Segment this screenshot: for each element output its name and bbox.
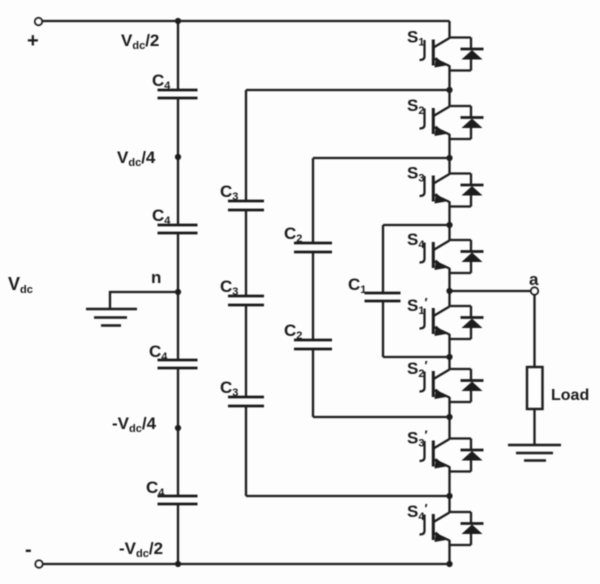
svg-text:a: a — [529, 270, 539, 289]
wire neutral to ground — [110, 292, 178, 308]
node bottom rail junction — [175, 561, 181, 567]
wire collector stem — [448, 225, 450, 240]
svg-text:S2: S2 — [407, 96, 424, 117]
wire C2 ladder bus — [312, 158, 314, 417]
wire emitter stem — [448, 66, 450, 91]
wire emitter stem — [448, 268, 450, 291]
svg-text:+: + — [27, 30, 39, 52]
wire top split — [450, 105, 472, 107]
plate top — [228, 295, 264, 298]
IGBT body — [420, 174, 450, 204]
svg-text:Vdc/4: Vdc/4 — [117, 148, 156, 169]
svg-text:n: n — [151, 268, 161, 287]
plate bottom — [158, 503, 198, 506]
node switch bus y=357 — [446, 354, 452, 360]
transistor S2' (IGBT with antiparallel diode) — [407, 357, 484, 417]
plate top — [228, 200, 264, 203]
capacitor C3 — [220, 277, 264, 305]
capacitor C3 — [220, 378, 264, 406]
diode antiparallel — [450, 369, 484, 402]
transistor S1' (IGBT with antiparallel diode) — [407, 291, 484, 357]
wire output to a — [450, 290, 532, 292]
capacitor C4 — [149, 342, 198, 368]
node top rail junction — [175, 18, 181, 24]
plate top — [294, 339, 332, 342]
transistor S2 (IGBT with antiparallel diode) — [407, 90, 484, 158]
capacitor C2 — [284, 224, 332, 252]
diode antiparallel — [450, 174, 484, 207]
capacitor C4 — [146, 478, 198, 504]
wire top split — [450, 239, 472, 241]
node n neutral point — [175, 289, 181, 295]
plate bottom — [228, 209, 264, 212]
capacitor C4 — [152, 71, 198, 98]
wire collector stem — [448, 21, 450, 38]
node switch bus y=225 — [446, 222, 452, 228]
plate top — [158, 89, 198, 92]
node switch bus y=90 — [446, 87, 452, 93]
wire top DC rail — [42, 20, 450, 22]
svg-text:S3: S3 — [407, 164, 424, 185]
plate bottom — [365, 300, 401, 303]
IGBT body — [420, 439, 450, 469]
wire top split — [450, 36, 472, 38]
wire C1 top tap — [383, 224, 450, 226]
diode antiparallel — [450, 106, 484, 139]
svg-text:-Vdc/4: -Vdc/4 — [112, 414, 157, 435]
diode antiparallel — [450, 439, 484, 472]
wire emitter stem — [448, 202, 450, 226]
plate top — [365, 292, 401, 295]
terminal + positive DC input — [35, 18, 42, 25]
plate top — [158, 359, 198, 362]
svg-text:Vdc: Vdc — [8, 274, 33, 296]
wire collector stem — [448, 158, 450, 174]
svg-text:-: - — [25, 539, 32, 561]
wire C3 ladder top tap — [246, 89, 450, 91]
diode antiparallel — [450, 38, 484, 71]
svg-text:C1: C1 — [348, 275, 366, 296]
node Vdc/4 — [175, 154, 181, 160]
plate bottom — [294, 348, 332, 351]
node switch bus y=564 — [446, 561, 452, 567]
svg-text:-Vdc/2: -Vdc/2 — [119, 539, 163, 560]
wire emitter stem — [448, 334, 450, 357]
plate top — [158, 495, 198, 498]
wire collector stem — [448, 496, 450, 512]
node -Vdc/4 — [175, 425, 181, 431]
wire load to ground — [533, 409, 535, 445]
IGBT body — [420, 370, 450, 400]
svg-text:S4: S4 — [407, 230, 425, 251]
IGBT body — [420, 241, 450, 271]
ground neutral — [86, 309, 137, 326]
wire a to load — [533, 295, 535, 367]
diode antiparallel — [450, 306, 484, 339]
plate bottom — [228, 304, 264, 307]
node switch bus y=291 — [446, 288, 452, 294]
wire collector stem — [448, 417, 450, 439]
wire emitter stem — [448, 540, 450, 564]
svg-text:Load: Load — [551, 387, 589, 404]
svg-text:Vdc/2: Vdc/2 — [121, 31, 159, 52]
wire C3 ladder bottom tap — [246, 495, 450, 497]
plate bottom — [294, 251, 332, 254]
wire top split — [450, 511, 472, 513]
plate top — [158, 224, 198, 227]
wire C1 leads — [382, 225, 384, 357]
wire C3 ladder bus — [245, 90, 247, 496]
node a output terminal — [531, 287, 538, 294]
IGBT body — [420, 307, 450, 337]
transistor S3 (IGBT with antiparallel diode) — [407, 158, 484, 225]
IGBT body — [420, 38, 450, 68]
transistor S4' (IGBT with antiparallel diode) — [407, 496, 484, 564]
capacitor C1 — [348, 275, 401, 301]
plate bottom — [228, 405, 264, 408]
wire bottom DC rail — [43, 563, 450, 565]
plate top — [294, 242, 332, 245]
capacitor C3 — [220, 182, 264, 210]
diode antiparallel — [450, 240, 484, 273]
IGBT body — [420, 513, 450, 543]
wire emitter stem — [448, 134, 450, 158]
wire left DC-link bus — [177, 21, 179, 564]
svg-text:S1: S1 — [407, 28, 424, 49]
capacitor C2 — [284, 321, 332, 349]
wire emitter stem — [448, 467, 450, 497]
terminal - negative DC input — [35, 560, 42, 567]
ground load — [508, 445, 561, 461]
plate bottom — [158, 232, 198, 235]
transistor S1 (IGBT with antiparallel diode) — [407, 21, 484, 90]
transistor S3' (IGBT with antiparallel diode) — [407, 417, 484, 496]
plate top — [228, 396, 264, 399]
wire collector stem — [448, 90, 450, 106]
transistor S4 (IGBT with antiparallel diode) — [407, 225, 484, 291]
wire collector stem — [448, 357, 450, 369]
resistor Load — [527, 367, 543, 409]
diode antiparallel — [450, 512, 484, 545]
node switch bus y=158 — [446, 155, 452, 161]
wire C1 bottom tap — [383, 356, 450, 358]
plate bottom — [158, 97, 198, 100]
wire top split — [450, 172, 472, 174]
node switch bus y=496 — [446, 493, 452, 499]
node switch bus y=417 — [446, 414, 452, 420]
plate bottom — [158, 367, 198, 370]
wire top split — [450, 368, 472, 370]
wire top split — [450, 437, 472, 439]
capacitor C4 — [152, 206, 198, 233]
wire top split — [450, 305, 472, 307]
wire C2 ladder top tap — [313, 157, 450, 159]
wire collector stem — [448, 291, 450, 306]
wire C2 ladder bottom tap — [313, 416, 450, 418]
IGBT body — [420, 107, 450, 137]
wire emitter stem — [448, 397, 450, 417]
